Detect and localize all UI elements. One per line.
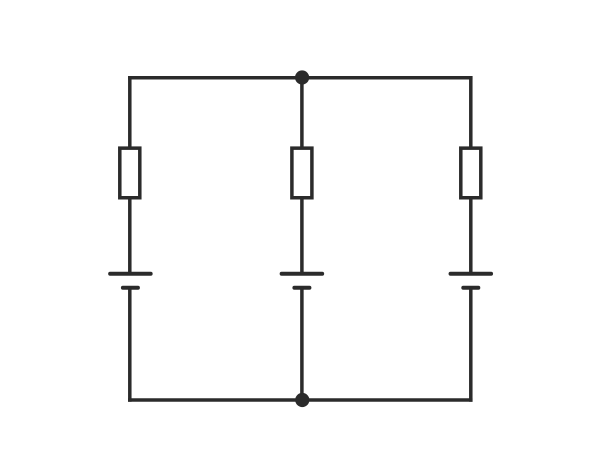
- wire left branch upper: [128, 76, 132, 148]
- wire middle branch upper: [300, 78, 304, 148]
- wire middle branch lower: [300, 288, 304, 400]
- junction dot top node: [295, 70, 309, 84]
- resistor R1: [120, 148, 140, 198]
- wire bottom rail: [128, 398, 473, 402]
- battery B1: [110, 274, 150, 288]
- wire right branch upper: [469, 76, 473, 148]
- junction dot bottom node: [295, 393, 309, 407]
- wire right branch lower: [469, 288, 473, 402]
- wire right branch middle: [469, 198, 473, 274]
- resistor R2: [292, 148, 312, 198]
- wire middle branch middle: [300, 198, 304, 274]
- wire left branch lower: [128, 288, 132, 402]
- wire top rail: [128, 76, 473, 80]
- battery B3: [451, 274, 492, 288]
- resistor R3: [461, 148, 481, 198]
- wire left branch middle: [128, 198, 132, 274]
- battery B2: [282, 274, 323, 288]
